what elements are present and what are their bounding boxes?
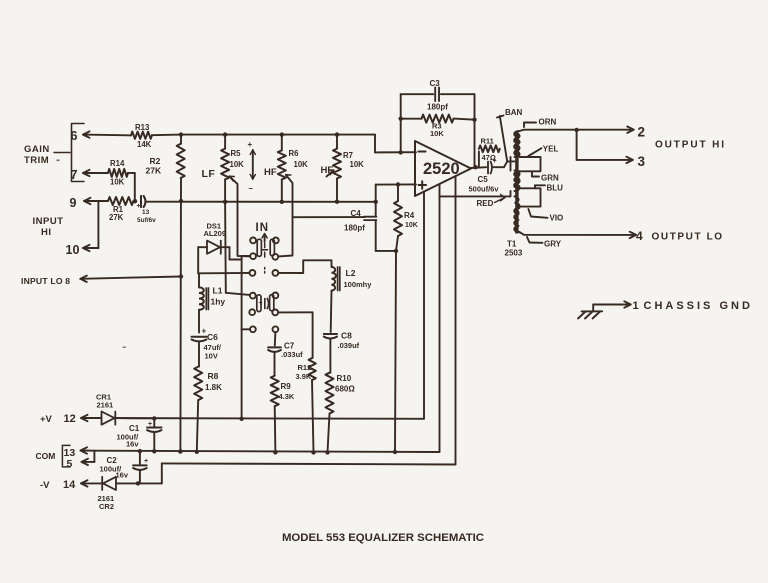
resistor R10 — [326, 373, 356, 414]
svg-text:TRIM: TRIM — [24, 155, 49, 166]
resistor R7 HF pot — [333, 135, 364, 202]
wire CR1 to rail — [116, 417, 154, 419]
node junction R3 right — [472, 118, 476, 122]
switch S1a right contact — [270, 238, 278, 260]
inductor secondary winding upper — [514, 131, 519, 156]
svg-text:3: 3 — [638, 154, 646, 169]
svg-text:180pf: 180pf — [344, 224, 365, 233]
wire S1b-right to R12 — [278, 311, 313, 313]
svg-text:10K: 10K — [405, 222, 418, 229]
wire wiper branch to C4 — [293, 216, 365, 218]
svg-text:YEL: YEL — [543, 145, 559, 154]
svg-text:14: 14 — [63, 479, 76, 491]
inductor L2 — [332, 267, 373, 291]
wire pin12 to CR1 — [81, 417, 102, 419]
switch S1a left contact — [250, 238, 261, 260]
svg-text:R12: R12 — [298, 363, 312, 372]
svg-text:13: 13 — [142, 209, 150, 216]
wire -V rail — [162, 463, 456, 464]
svg-text:R2: R2 — [150, 156, 161, 166]
svg-text:C6: C6 — [207, 332, 218, 342]
svg-text:R8: R8 — [208, 371, 219, 381]
inductor secondary winding lower — [514, 208, 519, 232]
wire middle-left contact — [199, 272, 250, 274]
label GAIN TRIM — [24, 144, 50, 166]
node junction R4 bottom — [394, 249, 398, 253]
capacitor C3 — [401, 79, 475, 112]
svg-text:INPUT LO 8: INPUT LO 8 — [21, 276, 70, 286]
svg-text:CR2: CR2 — [99, 502, 114, 511]
switch S1 bottom contacts — [250, 326, 278, 332]
node junction com r9 — [273, 450, 277, 454]
svg-text:100mhy: 100mhy — [344, 280, 373, 289]
node junction R2 top — [179, 132, 183, 136]
node junction minus input — [399, 150, 403, 154]
node junction com x181 — [178, 449, 182, 453]
label INPUT HI — [33, 216, 64, 238]
wire C6 to R8 — [198, 342, 200, 366]
transformer T1 core — [515, 131, 518, 234]
resistor R13 — [131, 123, 152, 149]
resistor R14 — [108, 159, 128, 187]
wire C7 to R9 — [274, 353, 276, 376]
svg-text:10K: 10K — [110, 178, 125, 187]
svg-text:16v: 16v — [126, 440, 139, 449]
wire middle-right to L2 — [278, 260, 331, 273]
label COM — [36, 451, 56, 461]
resistor R9 — [271, 376, 295, 407]
switch S1b right contact — [270, 293, 279, 316]
diode CR2 — [98, 477, 117, 511]
inductor primary winding upper — [515, 133, 520, 157]
wire R10 to com — [328, 414, 330, 453]
svg-text:10K: 10K — [350, 160, 365, 169]
wire output-3 branch — [577, 130, 633, 163]
svg-text:2: 2 — [638, 125, 646, 140]
label GRY — [527, 237, 562, 249]
resistor R11 — [479, 137, 500, 168]
wire plus input — [376, 184, 416, 216]
svg-text:R11: R11 — [481, 137, 494, 146]
wire COM rail — [94, 451, 439, 452]
node junction R1-R14 — [133, 199, 141, 210]
svg-text:C5: C5 — [478, 175, 489, 184]
wire secondary bottom lead — [519, 232, 636, 238]
svg-text:10K: 10K — [294, 160, 309, 169]
wire opamp output — [471, 166, 486, 169]
node junction output — [473, 165, 477, 169]
wire R8 to com — [197, 400, 198, 452]
svg-text:1hy: 1hy — [211, 297, 226, 307]
node junction output-hi — [574, 128, 578, 132]
svg-text:7: 7 — [71, 168, 78, 182]
svg-text:+: + — [144, 458, 148, 465]
wire R9 to com — [274, 406, 277, 452]
svg-text:2503: 2503 — [505, 249, 523, 258]
svg-text:GRN: GRN — [541, 174, 559, 183]
label YEL — [528, 145, 558, 157]
wire x181 vertical — [179, 178, 182, 452]
capacitor C6 — [192, 332, 222, 361]
svg-text:16v: 16v — [116, 471, 129, 480]
svg-text:ORN: ORN — [539, 118, 557, 127]
wire R7 wiper — [327, 170, 334, 177]
svg-text:R4: R4 — [404, 211, 415, 220]
op-amp U1 2520 — [415, 141, 471, 196]
wire DS1 cathode — [222, 247, 242, 259]
node junction R6 bottom — [280, 200, 284, 204]
wire pin6 to R13 — [83, 134, 131, 137]
wire primary links — [507, 157, 514, 196]
label pin 2 — [638, 125, 646, 140]
label RED — [477, 194, 506, 208]
node junction com c1 — [152, 449, 156, 453]
svg-text:GRY: GRY — [544, 240, 562, 249]
svg-text:27K: 27K — [146, 166, 162, 176]
wire BAN diagonal — [500, 116, 507, 161]
wire +V vertical — [423, 191, 425, 418]
node pin 13 terminal — [64, 447, 88, 459]
svg-text:10K: 10K — [230, 160, 245, 169]
node junction c2 minus — [136, 481, 140, 485]
svg-text:OUTPUT LO: OUTPUT LO — [652, 232, 724, 243]
label 1 CHASSIS GND — [633, 300, 753, 312]
svg-text:3.9K: 3.9K — [296, 372, 312, 381]
inductor L1 — [199, 273, 225, 309]
svg-text:-V: -V — [40, 480, 50, 491]
label pin 4 — [636, 229, 643, 243]
svg-text:R13: R13 — [135, 123, 150, 132]
capacitor C4 — [344, 209, 376, 233]
node junction com c2 — [138, 449, 142, 453]
svg-text:4: 4 — [636, 229, 643, 243]
label IN switch — [256, 222, 270, 242]
label CW indicator — [248, 140, 256, 193]
node junction R7 top — [335, 132, 339, 136]
label OUTPUT LO — [652, 232, 724, 243]
wire C4 bottom to R4 — [376, 220, 396, 251]
node junction x181 bus — [179, 199, 183, 203]
node junction x181 com — [178, 449, 182, 453]
svg-text:.039uf: .039uf — [338, 341, 360, 350]
node pin 10 terminal — [66, 243, 90, 257]
node junction com r4 — [393, 450, 397, 454]
node junction bus corner — [374, 200, 378, 204]
svg-text:C4: C4 — [351, 209, 362, 218]
svg-text:2161: 2161 — [97, 401, 114, 410]
svg-text:R9: R9 — [281, 382, 292, 391]
svg-text:L2: L2 — [346, 268, 356, 278]
svg-text:10V: 10V — [205, 352, 218, 361]
wire bottom-left contact to +V line — [242, 328, 250, 330]
wire secondary top lead — [519, 127, 634, 133]
wire -V vertical — [455, 176, 457, 464]
svg-text:10K: 10K — [430, 129, 444, 138]
svg-text:.033uf: .033uf — [281, 350, 303, 359]
svg-text:C8: C8 — [341, 331, 352, 341]
bracket gain-trim pins 6-7 — [54, 124, 84, 182]
wire L2 to C8 — [330, 291, 333, 332]
svg-text:4.3K: 4.3K — [279, 392, 295, 401]
wire feedback right vertical — [474, 94, 476, 167]
svg-text:R10: R10 — [337, 374, 352, 383]
wire pin10 to bus — [83, 201, 98, 248]
capacitor C8 — [324, 331, 360, 351]
label title — [282, 532, 484, 544]
wire C5 to primary — [493, 161, 507, 167]
bracket pins 13-5 — [62, 445, 70, 467]
label BLU — [535, 184, 563, 193]
node junction R8 com — [195, 450, 199, 454]
svg-text:10: 10 — [66, 243, 80, 257]
diode CR1 — [96, 393, 115, 425]
wire COM vertical — [439, 184, 441, 452]
label pin 3 — [638, 154, 646, 169]
node junction R5 bottom — [223, 200, 227, 204]
label HF left — [264, 167, 277, 178]
svg-text:2520: 2520 — [423, 160, 460, 178]
wire DS1 anode — [198, 247, 207, 273]
wire feedback left vertical — [400, 94, 402, 152]
node junction R7 bottom — [335, 200, 339, 204]
capacitor C9 input — [137, 196, 156, 224]
svg-text:9: 9 — [70, 196, 77, 210]
inductor primary winding lower — [515, 196, 520, 216]
wire bottom-right contact to C7 — [274, 332, 277, 345]
node junction com r12 — [311, 450, 315, 454]
label OUTPUT HI — [655, 140, 726, 151]
ground chassis symbol — [578, 311, 602, 318]
node junction com r10 — [325, 450, 329, 454]
svg-text:BAN: BAN — [505, 108, 523, 117]
node junction C1 plus — [152, 416, 156, 420]
wire input-lo — [80, 277, 181, 279]
svg-text:+: + — [148, 421, 152, 428]
svg-text:LF: LF — [202, 168, 216, 180]
label +V 12 — [40, 413, 76, 425]
svg-text:VIO: VIO — [550, 214, 564, 223]
diode DS1 — [207, 241, 221, 254]
svg-text:5uf/6v: 5uf/6v — [137, 217, 156, 224]
node junction input-lo — [179, 274, 183, 278]
svg-text:GAIN: GAIN — [24, 144, 50, 155]
wire pin14 to CR2 — [81, 482, 102, 484]
resistor R5 LF pot — [221, 135, 244, 202]
node junction switch-feed rail — [239, 417, 243, 421]
label T1 2503 — [505, 240, 523, 258]
capacitor C7 — [268, 342, 303, 360]
switch S1b left contact — [249, 293, 261, 315]
svg-text:+V: +V — [40, 414, 53, 425]
label VIO — [528, 209, 563, 223]
node junction R6 top — [280, 132, 284, 136]
wire RED to primary — [440, 195, 511, 197]
switch S1 middle contacts — [250, 270, 279, 276]
label BAN — [497, 108, 523, 118]
svg-text:27K: 27K — [109, 213, 124, 222]
wire secondary tap step2 — [520, 188, 541, 206]
wire R14 to R1 node — [128, 173, 135, 201]
wire noninverting bus — [147, 201, 376, 203]
svg-text:T1: T1 — [507, 240, 517, 249]
wire R5 leg to switch — [225, 202, 250, 295]
node pin 12 terminal — [81, 415, 88, 421]
svg-text:INPUT: INPUT — [33, 216, 64, 227]
label ORN — [524, 118, 557, 128]
resistor R12 — [296, 312, 316, 452]
svg-text:+: + — [259, 300, 263, 307]
svg-text:R5: R5 — [231, 149, 242, 158]
wire pin7 to R14 — [83, 172, 108, 174]
wire chassis gnd lead — [593, 301, 631, 311]
node junction R3 left — [399, 117, 403, 121]
svg-text:+: + — [202, 327, 207, 336]
wire R6 wiper — [279, 175, 293, 257]
capacitor C5 — [469, 158, 500, 194]
svg-text:C3: C3 — [430, 79, 441, 88]
resistor R6 HF pot — [278, 135, 308, 202]
svg-text:CHASSIS GND: CHASSIS GND — [644, 300, 753, 312]
node junction R4 top — [396, 182, 400, 186]
capacitor switch polarity mark — [259, 299, 269, 309]
svg-text:OUTPUT HI: OUTPUT HI — [655, 140, 726, 151]
node pin 9 terminal — [70, 196, 91, 210]
wire R13 to top bus — [152, 134, 181, 137]
svg-text:1.8K: 1.8K — [205, 383, 222, 392]
svg-text:AL209: AL209 — [204, 229, 227, 238]
wire R4 to com rail — [395, 251, 396, 452]
wire CR2 to -V rail — [116, 463, 162, 483]
svg-text:680Ω: 680Ω — [335, 385, 355, 394]
svg-text:1: 1 — [633, 300, 639, 312]
label DS1 — [204, 222, 227, 239]
svg-text:L1: L1 — [213, 286, 223, 296]
svg-text:14K: 14K — [137, 140, 152, 149]
switch S1 link dashes — [262, 243, 268, 273]
wire L1 to C6 — [199, 310, 207, 336]
label HF right — [321, 165, 334, 176]
resistor R1 — [108, 197, 134, 222]
svg-text:180pf: 180pf — [427, 103, 448, 112]
label -V 14 — [40, 479, 76, 491]
label GRN — [532, 171, 559, 182]
svg-text:IN: IN — [256, 222, 270, 234]
capacitor C2 — [100, 451, 149, 483]
resistor R3 — [401, 115, 475, 138]
svg-text:+: + — [248, 140, 253, 149]
node pin 6 terminal — [71, 129, 90, 143]
svg-text:R7: R7 — [343, 151, 353, 160]
label LF — [202, 168, 216, 180]
resistor R4 — [394, 185, 418, 251]
wire pin9 to R1 — [84, 200, 108, 202]
capacitor C1 — [117, 418, 162, 451]
svg-text:–: – — [249, 184, 254, 193]
wire R5 wiper — [229, 176, 250, 256]
wire C8 to R10 — [329, 340, 331, 373]
svg-text:RED: RED — [477, 199, 494, 208]
svg-text:+: + — [137, 203, 141, 210]
label INPUT LO pin 8 — [21, 276, 87, 286]
wire +V switch feed — [242, 256, 251, 419]
svg-text:HF: HF — [264, 167, 277, 178]
wire top bus — [181, 135, 416, 153]
svg-text:12: 12 — [64, 413, 76, 425]
node pin 7 terminal — [71, 168, 90, 182]
wire R2 top lead — [180, 135, 182, 144]
svg-text:5: 5 — [67, 458, 73, 470]
node pin 14 terminal — [81, 480, 88, 486]
svg-text:500uf/6v: 500uf/6v — [469, 185, 500, 194]
resistor R2 — [146, 144, 185, 178]
svg-text:47Ω: 47Ω — [482, 153, 496, 162]
node pin 5 terminal — [67, 458, 89, 470]
resistor R8 — [194, 367, 222, 401]
node junction R5 top — [223, 132, 227, 136]
svg-text:BLU: BLU — [547, 184, 564, 193]
svg-text:R14: R14 — [110, 159, 125, 168]
inductor primary winding middle — [515, 171, 520, 192]
svg-text:R6: R6 — [289, 149, 300, 158]
svg-text:MODEL 553 EQUALIZER SCHEMATIC: MODEL 553 EQUALIZER SCHEMATIC — [282, 532, 484, 544]
wire secondary tap step1 — [520, 157, 541, 171]
svg-text:HI: HI — [41, 227, 52, 238]
inductor secondary winding middle — [514, 171, 519, 188]
wire pins 13-5 join — [81, 451, 95, 462]
svg-text:COM: COM — [36, 451, 56, 461]
wire +V rail — [116, 417, 424, 420]
